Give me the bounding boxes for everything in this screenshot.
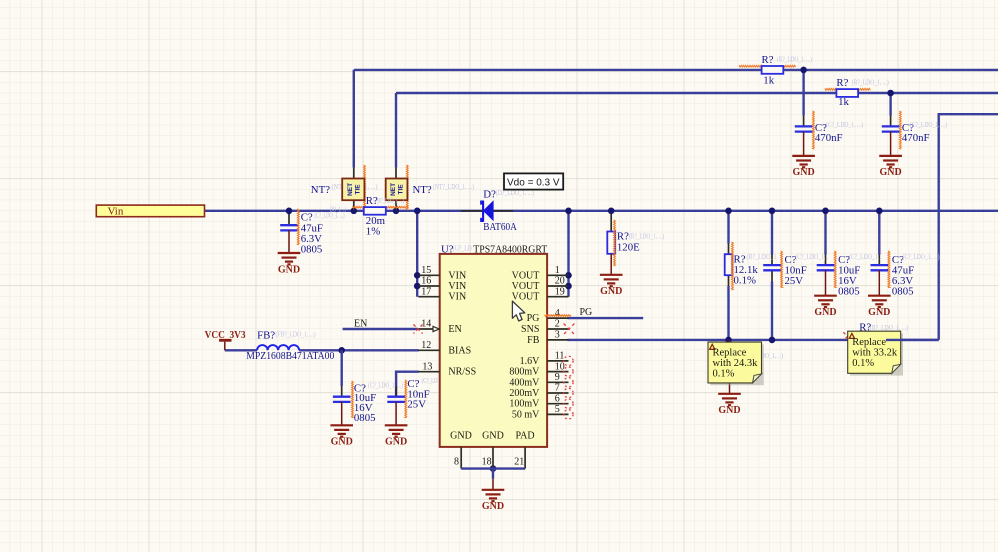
svg-text:NR/SS: NR/SS [448,367,476,378]
pin 7 200mV [509,383,568,399]
junction C? 10uF top [822,208,829,215]
op-amp U? title [441,243,547,255]
svg-text:8: 8 [454,457,459,468]
svg-text:100mV: 100mV [509,399,540,410]
pin 4 marker [545,315,571,317]
capacitor C? 47uF input marker [297,209,299,245]
node PG label [580,307,593,318]
svg-text:VOUT: VOUT [512,281,540,292]
junction R? 12.1k top [725,208,732,215]
svg-text:PG: PG [580,307,593,318]
resistor R? hidden 24.3k lead [729,340,731,394]
svg-text:7: 7 [555,383,560,394]
net-tie NT? 2 designator [413,183,475,196]
svg-text:(FB?_LDO_1, ...): (FB?_LDO_1, ...) [276,330,317,338]
ground out cap 47uF [868,296,891,318]
pin 5 50 mV [512,404,569,420]
svg-text:NET: NET [390,183,397,196]
net annotation fragment [330,205,346,213]
resistor R? hidden 24.3k annotation [745,352,784,360]
svg-text:(C?_LDO_1, ...): (C?_LDO_1, ...) [910,121,948,129]
capacitor C? 10nF nr/ss [387,386,405,425]
junction net-tie 1 on VIN [351,208,358,215]
svg-text:VIN: VIN [448,270,466,281]
resistor R? 12.1k labels [734,253,777,287]
svg-text:GND: GND [879,167,901,178]
svg-text:with 33.2k: with 33.2k [852,347,898,358]
resistor R? 120E [607,232,615,275]
net-tie NT? 1 marker [364,165,366,210]
cursor [512,301,524,321]
svg-text:3: 3 [555,330,560,341]
svg-text:NT?: NT? [311,184,330,196]
capacitor C? 470nF second labels [902,121,948,144]
svg-text:GND: GND [385,437,407,448]
resistor R? 1k first [762,66,784,74]
capacitor C? 470nF first [795,126,813,155]
resistor R? 120E labels [617,231,665,254]
capacitor C? 47uF input labels [301,212,323,256]
svg-text:(R?_LDO_1, ...): (R?_LDO_1, ...) [377,197,404,205]
junction 470nF 1 [800,67,807,74]
junction 470nF 2 [887,90,894,97]
svg-text:TIE: TIE [354,184,361,195]
resistor R? 1k second marker [825,88,871,90]
svg-text:(C?_LDO_1, .: (C?_LDO_1, . [795,253,828,261]
note replace 33.2k [848,331,903,375]
svg-text:Vin: Vin [108,205,124,217]
op-amp U? body [440,254,547,447]
junction C? 10nF top [769,208,776,215]
resistor R? 1k second [836,89,858,97]
ground bias cap [330,425,353,447]
svg-text:2: 2 [555,319,560,330]
svg-text:TPS7A8400RGRT: TPS7A8400RGRT [473,245,547,256]
svg-text:GND: GND [814,307,836,318]
resistor R? 20m marker [353,206,409,208]
svg-text:50 mV: 50 mV [512,409,540,420]
note replace 24.3k [708,342,764,385]
wire FB sense loop from right edge [939,114,998,340]
pin 13 NR/SS [418,361,476,377]
junction R? 120E [608,208,615,215]
no-erc marker pin 11 [564,356,573,365]
svg-text:GND: GND [868,307,890,318]
svg-text:20: 20 [555,276,565,287]
junction pin 15 [414,272,421,279]
svg-text:PG: PG [527,313,540,324]
wire C? 10nF to FB net [771,271,773,340]
no-erc marker note [843,332,851,340]
wire FB net horizontal [568,339,939,341]
capacitor C? 10uF out labels [838,253,882,297]
svg-text:200mV: 200mV [509,388,540,399]
capacitor C? 10nF ff marker [781,251,783,288]
pin 18 GND [482,430,504,468]
svg-text:DO_1, ..): DO_1, ..) [330,205,346,213]
no-erc marker EN [413,324,422,333]
svg-text:400mV: 400mV [509,377,540,388]
svg-text:Replace: Replace [713,347,747,358]
svg-text:0805: 0805 [892,285,914,297]
svg-text:FB: FB [527,335,540,346]
resistor R? 20m labels [366,195,405,238]
wire U? ground [461,469,525,479]
pin 10 800mV [509,361,568,377]
capacitor C? 10uF out marker [834,251,836,288]
junction VOUT vertical [565,208,572,215]
svg-text:(C?_LDO_1, ...): (C?_LDO_1, ...) [368,382,404,390]
svg-text:PAD: PAD [515,430,534,441]
svg-text:VOUT: VOUT [512,292,540,303]
svg-text:1: 1 [555,265,560,276]
svg-text:13: 13 [422,361,432,372]
svg-text:1k: 1k [763,75,774,87]
no-erc marker pin 9 [564,378,573,387]
wire R? 12.1k to FB net [728,275,730,340]
junction U? ground [490,465,497,472]
no-erc marker pin 10 [564,367,573,376]
capacitor C? 10nF ff labels [785,253,829,287]
no-erc marker pin 2 [564,324,575,335]
capacitor C? 47uF out [871,265,889,296]
svg-text:4: 4 [555,308,560,319]
ground 470nF second [879,156,902,178]
inductor FB? [257,345,299,350]
svg-text:(R?_LDO_1: (R?_LDO_1 [747,253,777,261]
node EN label [354,318,367,329]
svg-text:470nF: 470nF [902,132,930,144]
pin 19 VOUT [512,286,569,302]
inductor FB? designator [257,329,316,341]
svg-text:1.6V: 1.6V [520,356,541,367]
wire drop to R? 12.1k [727,211,729,254]
svg-text:0805: 0805 [354,412,376,424]
wire top net 1 horizontal [354,69,998,71]
svg-text:17: 17 [421,286,431,297]
diode D? BAT60A [481,200,493,222]
wire drop to C? 10uF [824,211,826,265]
wire drop to C? 47uF [878,211,880,265]
svg-text:EN: EN [354,318,367,329]
svg-text:FB?: FB? [257,329,275,341]
wire FB over note [886,339,939,341]
text frame Vdo [504,173,563,189]
capacitor C? 10nF nr/ss labels [407,377,437,411]
svg-text:(C?_LDO_1, .: (C?_LDO_1, . [849,253,882,261]
svg-text:6: 6 [555,393,560,404]
pin 1 VOUT [512,265,569,281]
pin 2 SNS [521,319,568,335]
ground nr/ss cap [385,425,408,447]
svg-text:VOUT: VOUT [512,270,540,281]
port Vin [96,205,204,217]
svg-text:0.1%: 0.1% [852,358,874,369]
junction BIAS cap [338,347,345,354]
resistor R? 20m [364,207,386,215]
capacitor C? 10uF out [817,265,835,296]
svg-text:GND: GND [600,286,622,297]
capacitor C? 470nF first marker [813,111,815,149]
pin 9 400mV [509,372,568,388]
ground out cap 10uF [814,296,837,318]
svg-text:GND: GND [331,437,353,448]
junction pin 16 [414,283,421,290]
wire VIN vertical to U? pins 15/16/17 [416,211,418,297]
capacitor C? 10uF bias [333,350,351,425]
inductor FB? value [246,350,334,362]
svg-text:GND: GND [482,501,504,512]
svg-text:14: 14 [421,319,431,330]
pin 4 PG [527,308,569,324]
svg-text:TIE: TIE [398,184,405,195]
capacitor C? 47uF out labels [892,253,940,297]
junction FB C [769,337,776,344]
ground hidden resistor [718,394,741,416]
svg-text:(R?_LDO_1, ...): (R?_LDO_1, ...) [629,233,665,241]
resistor R? 12.1k [725,254,733,275]
ground R? 120E [600,275,623,297]
junction pin 1 [565,272,572,279]
svg-text:19: 19 [555,286,565,297]
svg-text:0.1%: 0.1% [713,368,735,379]
svg-text:0805: 0805 [301,244,323,256]
svg-text:(R?_LDO_1, ...): (R?_LDO_1, ...) [852,79,890,87]
svg-text:BIAS: BIAS [448,345,471,356]
svg-text:15: 15 [421,265,431,276]
svg-text:12: 12 [421,340,431,351]
wire BIAS net left of inductor [225,349,257,351]
power VCC_3V3 [205,330,246,350]
wire PG net [568,317,644,319]
ground 470nF first [792,156,815,178]
svg-text:EN: EN [448,324,461,335]
resistor R? 12.1k marker [732,242,734,290]
svg-text:Replace: Replace [852,337,886,348]
svg-text:0.1%: 0.1% [734,275,757,287]
junction C? 47uF top [876,208,883,215]
wire drop to C? 10nF [771,211,773,265]
pin 8 GND [450,430,472,468]
svg-text:120E: 120E [617,242,640,254]
wire BIAS net right of inductor [299,349,419,351]
svg-text:11: 11 [555,351,565,362]
pin 6 100mV [509,393,568,409]
net-tie NT? 1 [342,168,364,211]
ground U? [482,479,505,513]
svg-text:MPZ1608B471ATA00: MPZ1608B471ATA00 [246,350,334,362]
no-erc marker pin 5 [564,410,573,419]
svg-text:R?: R? [762,54,774,66]
svg-text:VIN: VIN [448,292,466,303]
wire drop to R? 120E [610,211,612,232]
no-erc marker pin 7 [564,388,573,397]
capacitor C? 47uF out marker [888,251,890,288]
diode D? labels [483,189,534,233]
svg-text:(R?_LDO_1, ...): (R?_LDO_1, ...) [777,56,813,64]
svg-text:GND: GND [278,264,300,275]
net-tie NT? 1 designator [311,183,378,196]
wire top net 2 horizontal [396,92,998,94]
junction pin 20 [565,283,572,290]
svg-text:(C?_LD: (C?_LD [422,377,438,385]
resistor R? 1k first marker [739,65,796,67]
svg-text:Vdo = 0.3 V: Vdo = 0.3 V [507,177,560,188]
pin 12 BIAS [418,340,471,356]
wire EN net [343,328,418,330]
svg-text:(C?_LDO_1, ...): (C?_LDO_1, ...) [826,121,864,129]
svg-text:GND: GND [718,405,740,416]
pin 3 FB [527,330,568,346]
junction FB R [725,337,732,344]
wire top net 2 vertical to net-tie NT? [395,93,397,168]
wire net VIN main horizontal [205,210,998,212]
svg-text:NET: NET [347,183,354,196]
resistor R? 1k first labels [762,54,813,87]
svg-text:25V: 25V [407,399,426,411]
svg-text:25V: 25V [785,275,804,287]
svg-text:16: 16 [421,276,431,287]
wire NR/SS net [396,372,419,397]
net-tie NT? 2 marker [406,165,408,210]
no-erc marker pin 6 [564,399,573,408]
svg-text:18: 18 [482,457,492,468]
capacitor C? 10nF ff [763,265,781,270]
svg-text:9: 9 [555,372,560,383]
pin 15 VIN [418,265,466,281]
svg-text:(NT?_LDO_1, ...): (NT?_LDO_1, ...) [433,183,475,191]
capacitor C? 470nF first labels [815,121,864,144]
junction VIN vertical [414,208,421,215]
svg-text:NT?: NT? [413,184,432,196]
wire drop to C? 470nF first [802,70,804,126]
svg-text:with 24.3k: with 24.3k [713,358,759,369]
pin 16 VIN [418,276,466,292]
svg-text:1%: 1% [366,226,380,238]
diode D? BAT60A pins [461,210,513,212]
capacitor C? 47uF input annotation [315,212,345,220]
svg-text:R?: R? [836,77,848,89]
svg-text:SNS: SNS [521,324,539,335]
svg-text:5: 5 [555,404,560,415]
svg-text:1k: 1k [838,96,849,108]
wire VOUT vertical to U? pins 1/20/19 [567,211,569,297]
svg-text:(C?_LDO_1, ...): (C?_LDO_1, ...) [903,253,941,261]
capacitor C? 10nF nr/ss marker [405,380,407,418]
capacitor C? 47uF input [280,225,298,253]
svg-text:GND: GND [482,430,504,441]
resistor R? 120E marker [614,220,616,266]
wire drop to C? 47uF input [288,211,290,225]
junction input cap [286,208,293,215]
pin 21 PAD [514,430,534,468]
resistor R? 1k second labels [836,77,889,108]
capacitor C? 470nF second marker [899,111,901,149]
capacitor C? 10uF bias labels [354,382,404,425]
svg-text:GND: GND [792,167,814,178]
wire drop to C? 470nF second [889,93,891,126]
capacitor C? 470nF second [882,126,900,155]
svg-text:BAT60A: BAT60A [483,221,517,233]
wire top net 1 vertical to net-tie NT? [353,70,355,168]
net-tie NT? 2 [386,168,408,211]
svg-text:0805: 0805 [838,285,860,297]
svg-text:VIN: VIN [448,281,466,292]
svg-text:(U?_LD: (U?_LD [453,244,472,252]
pin 11 1.6V [520,351,569,367]
svg-text:470nF: 470nF [815,132,843,144]
pin 17 VIN [418,286,466,302]
resistor R? hidden 33.2k designator [859,321,908,333]
svg-text:D?: D? [483,189,496,201]
svg-text:800mV: 800mV [509,367,540,378]
pin 14 EN [418,319,461,335]
capacitor C? 10uF bias marker [352,381,354,418]
junction net-tie 2 on VIN [393,208,400,215]
svg-text:GND: GND [450,430,472,441]
svg-text:21: 21 [514,457,524,468]
ground input cap [278,253,301,275]
pin 20 VOUT [512,276,569,292]
